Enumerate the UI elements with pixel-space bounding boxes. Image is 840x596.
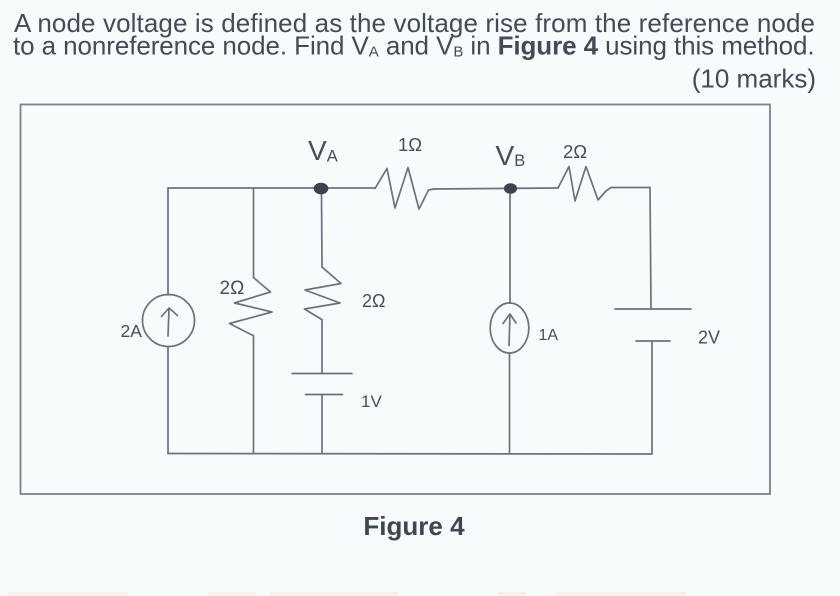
wire top left (node A rail) [168, 187, 375, 189]
svg-text:to a nonreference node. Find V: to a nonreference node. Find VA and VB i… [13, 31, 815, 61]
wire left branch upper [167, 188, 169, 295]
node B junction dot [504, 183, 517, 194]
svg-text:1Ω: 1Ω [398, 134, 422, 155]
svg-text:2Ω: 2Ω [220, 278, 245, 299]
battery B1 1V long plate [292, 373, 352, 375]
wire branch 2 lower [253, 336, 255, 454]
resistor R1 1Ω [375, 168, 434, 210]
svg-text:1A: 1A [539, 327, 559, 344]
wire left branch lower [167, 347, 169, 454]
node A junction dot [314, 183, 329, 195]
battery B2 2V short plate [636, 340, 670, 342]
wire right branch lower [651, 341, 653, 454]
faint scan artifacts at bottom edge [8, 592, 686, 595]
wire branch 2 upper [253, 188, 255, 278]
battery B1 1V short plate [306, 394, 343, 396]
figure border frame [21, 105, 771, 495]
svg-text:2V: 2V [698, 328, 720, 348]
wire node B branch lower [509, 353, 511, 454]
svg-text:(10 marks): (10 marks) [692, 64, 816, 94]
svg-text:Figure 4: Figure 4 [363, 511, 465, 541]
current source I1 2A circle [143, 295, 195, 347]
resistor R3 2Ω (left vertical) [230, 278, 273, 336]
wire between R1 and node B [434, 188, 558, 189]
current source I2 1A ellipse [490, 303, 529, 353]
svg-text:2A: 2A [121, 321, 143, 341]
resistor R2 2Ω (top right) [558, 167, 611, 202]
svg-text:2Ω: 2Ω [563, 141, 587, 162]
wire node B branch upper [509, 193, 511, 303]
current source I1 arrow [162, 308, 178, 336]
battery B2 2V long plate [615, 308, 691, 310]
wire R2 to right corner [611, 187, 650, 189]
wire right branch upper [650, 188, 651, 310]
wire node A branch lower [321, 395, 323, 454]
resistor R4 2Ω (node A vertical) [305, 267, 342, 320]
wire bottom rail [168, 453, 652, 456]
current source I2 arrow [503, 314, 516, 346]
wire R4 to battery B1 [321, 320, 323, 374]
svg-text:2Ω: 2Ω [362, 291, 385, 311]
wire node A branch upper [321, 193, 324, 267]
svg-text:1V: 1V [361, 392, 382, 411]
